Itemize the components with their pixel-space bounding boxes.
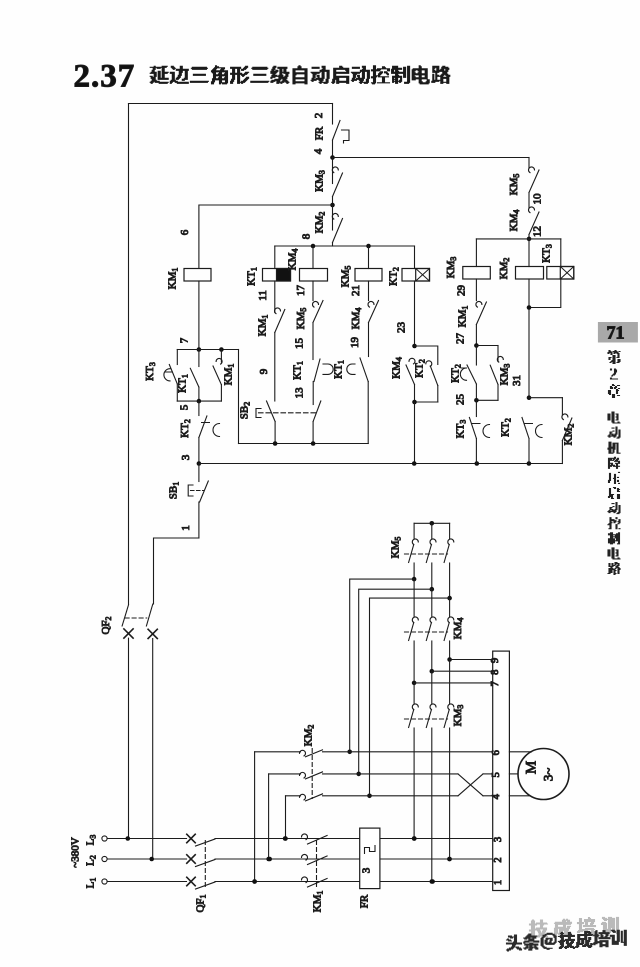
wire row 6 with KM2 pole 1 (254, 752, 256, 882)
contactor aux contact KM4 b (529, 207, 535, 213)
pushbutton SB2 pole 2 (313, 401, 321, 422)
contactor main contact KM5 pole 2 (431, 523, 433, 538)
wire KM5 star bar (414, 522, 450, 524)
svg-text:3: 3 (361, 867, 373, 873)
wire 29 (475, 279, 477, 301)
wire 9 (274, 333, 276, 402)
time-delay contact KT1 b (347, 364, 355, 374)
contactor aux contact KM2 (332, 214, 338, 220)
wire crossover 5-4 (458, 774, 483, 796)
svg-text:~380V: ~380V (70, 837, 82, 867)
contactor aux contact KM4 (368, 302, 374, 308)
coil KM5 (368, 246, 370, 269)
contactor main contact KM4 pole 3 (449, 599, 451, 616)
wire 12 / node (528, 235, 530, 239)
time-delay contact KT3 b (475, 400, 477, 416)
svg-text:7: 7 (490, 681, 501, 686)
svg-text:7: 7 (179, 337, 191, 343)
wire 15 (312, 323, 314, 360)
time contact KT2 instant (426, 361, 432, 367)
wire left control column (128, 104, 130, 605)
time-delay contact KT2 opening (198, 401, 200, 415)
node KM3 to L3 row (412, 836, 417, 841)
watermark dark (507, 935, 522, 951)
contactor aux contact KM1 (self-hold) (275, 308, 281, 314)
svg-text:21: 21 (350, 285, 362, 296)
wire motor lead 5 (509, 773, 518, 775)
contactor main contact KM5 pole 3 (449, 523, 451, 538)
sidebar chapter title (608, 412, 620, 423)
time-delay contact KT2 b (475, 346, 477, 366)
terminal strip box (493, 651, 510, 890)
svg-text:1: 1 (180, 525, 192, 531)
contactor KM1 main link/label (316, 841, 318, 889)
wire rail from node 4 to right branch (333, 157, 530, 159)
node tap t8 (430, 669, 435, 674)
breaker QF2 pole 2 (146, 604, 152, 626)
wire L1 row (107, 881, 186, 883)
svg-text:1: 1 (493, 880, 504, 885)
wire parallel block top (177, 349, 238, 351)
node 27 block top (474, 343, 479, 348)
wire 19 (368, 323, 370, 357)
svg-text:10: 10 (532, 193, 544, 205)
svg-text:8: 8 (490, 670, 501, 675)
coil KM3 (475, 239, 477, 267)
wire 11 (274, 281, 276, 313)
svg-text:FR: FR (314, 126, 326, 140)
svg-text:3~: 3~ (541, 768, 556, 782)
contactor main contact KM3 pole 2 (431, 671, 433, 703)
wire 23 (414, 281, 416, 346)
time-delay contact KT1 a (314, 359, 320, 382)
svg-text:9: 9 (490, 658, 501, 663)
contactor main contact KM3 pole 3 (449, 660, 451, 704)
svg-text:6: 6 (179, 229, 191, 235)
svg-text:9: 9 (258, 368, 270, 374)
svg-text:4: 4 (313, 148, 325, 154)
breaker QF2 pole 1 (122, 605, 128, 626)
KM4 link and label (405, 631, 448, 633)
node tap t7 (412, 681, 417, 686)
contactor main contact KM3 pole 1 (413, 683, 415, 704)
node 4 (330, 155, 335, 160)
supply terminal L1 (102, 879, 107, 884)
title chinese (150, 66, 168, 83)
svg-text:8: 8 (301, 233, 313, 239)
svg-text:11: 11 (257, 290, 269, 301)
svg-text:4: 4 (491, 793, 502, 799)
wire motor lead 4 (509, 795, 529, 797)
svg-text:12: 12 (532, 226, 544, 237)
wire 21 (368, 281, 370, 301)
svg-text:23: 23 (396, 322, 408, 334)
breaker QF1 link/label (204, 841, 206, 889)
contactor aux contact KM3 (NC in series) (332, 158, 334, 184)
wire 13 (312, 382, 314, 405)
contactor aux contact KM1 b (220, 350, 222, 363)
motor M (518, 749, 569, 800)
svg-text:71: 71 (607, 323, 625, 343)
KM3 link and label (405, 718, 448, 720)
contactor aux contact KM5 (313, 302, 319, 308)
KM2 link (311, 749, 313, 799)
wire L3 row (107, 838, 186, 840)
svg-text:3: 3 (493, 837, 504, 842)
svg-text:M: M (524, 761, 540, 774)
node 5 (177, 400, 221, 402)
wire L2 row (107, 858, 186, 860)
svg-text:25: 25 (455, 394, 467, 406)
supply terminal L2 (102, 856, 107, 861)
svg-text:13: 13 (294, 387, 306, 399)
node tap t9 (447, 657, 452, 662)
contactor aux contact KM3 b (497, 346, 499, 362)
node 23 block bottom (415, 401, 438, 403)
wire row 5 with KM2 pole 2 (268, 774, 270, 859)
wire SB2 bottom rail (239, 443, 369, 445)
svg-text:15: 15 (294, 338, 306, 350)
svg-text:27: 27 (455, 333, 467, 345)
contactor main contact KM4 pole 1 (413, 579, 415, 616)
sidebar chapter (608, 351, 620, 364)
supply terminal L3 (102, 836, 107, 841)
pushbutton SB2 pole 1 (267, 401, 276, 422)
svg-text:19: 19 (349, 337, 361, 349)
wire motor lead 6 (509, 751, 531, 753)
contactor main contact KM5 pole 1 (413, 523, 415, 538)
wire row 4 with KM2 pole 3 (285, 796, 287, 839)
svg-text:29: 29 (456, 285, 468, 297)
node 3 (197, 461, 202, 466)
coil KM4 (312, 246, 314, 269)
node KM3 to L1 row (430, 879, 435, 884)
wire top rail (129, 103, 333, 105)
node 6 (330, 203, 335, 208)
wire 31 (528, 279, 530, 398)
svg-text:17: 17 (295, 285, 307, 297)
thermal overload FR box (360, 828, 380, 889)
svg-text:2.37: 2.37 (74, 59, 136, 95)
time-delay contact KT3 (176, 350, 178, 365)
contactor aux contact KM5 b (528, 158, 530, 168)
coil KM2 (528, 239, 530, 267)
node 23 block top (412, 344, 417, 349)
svg-text:FR: FR (359, 894, 371, 908)
thermal relay contact FR (332, 104, 334, 125)
svg-text:2: 2 (493, 857, 504, 862)
svg-text:6: 6 (491, 750, 502, 755)
page number box 71 (598, 322, 638, 343)
node 25 (476, 399, 498, 401)
node tap W (447, 596, 452, 601)
node tap U (412, 577, 417, 582)
coil KT3 (time relay with X) (560, 239, 562, 267)
svg-text:2: 2 (313, 113, 325, 119)
wire KT3 coil to KM2 branch (529, 279, 561, 308)
coil KT2 (time relay with X) (414, 246, 416, 269)
wire 27 (475, 325, 477, 346)
wire 6 to KM1 coil (199, 205, 333, 269)
contactor aux contact KM4 c (409, 358, 415, 364)
svg-text:31: 31 (511, 375, 523, 386)
contactor aux contact KM1 c (476, 302, 482, 308)
contactor aux contact KM2 b (561, 398, 563, 415)
QF2 link (125, 617, 147, 619)
contactor main contact KM4 pole 2 (431, 589, 433, 616)
wire from node7 to SB2 rail (238, 350, 240, 444)
pushbutton SB1 (stop) (198, 464, 200, 482)
wire 10 (528, 193, 530, 208)
coil KM1 (184, 269, 211, 282)
SB2 actuator and link (256, 409, 261, 418)
svg-text:5: 5 (179, 404, 191, 410)
svg-text:5: 5 (491, 772, 502, 777)
node 7 (197, 347, 202, 352)
wire rail 12 (476, 238, 560, 240)
watermark light (530, 920, 548, 938)
svg-text:3: 3 (180, 454, 192, 460)
node KM3 to L2 row (447, 857, 452, 862)
KM5 link and label (405, 553, 448, 555)
node 31 (527, 395, 532, 400)
wire 17 (312, 281, 314, 301)
coil KT1 (time relay, half filled) (274, 246, 276, 269)
time-delay contact KT1 c (198, 350, 200, 367)
node tap V (430, 587, 435, 592)
wire rail 3 (199, 463, 563, 465)
time-delay contact KT2 c (522, 418, 529, 439)
